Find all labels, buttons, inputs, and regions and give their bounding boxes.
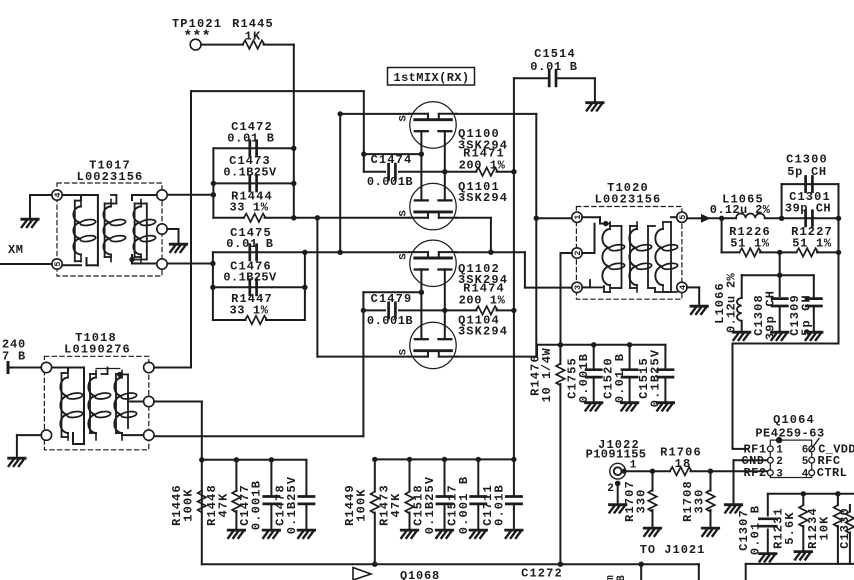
svg-text:200 1%: 200 1% xyxy=(459,294,506,308)
svg-text:330: 330 xyxy=(693,488,707,513)
svg-text:4: 4 xyxy=(802,468,809,480)
svg-text:Q1064: Q1064 xyxy=(773,413,815,427)
svg-text:2: 2 xyxy=(607,483,614,495)
svg-text:6: 6 xyxy=(802,445,809,457)
svg-text:5: 5 xyxy=(53,261,63,266)
svg-text:0.1B25V: 0.1B25V xyxy=(223,166,277,180)
svg-text:0.001B: 0.001B xyxy=(577,353,591,403)
svg-text:0.001B: 0.001B xyxy=(367,175,413,189)
svg-text:TO J1021: TO J1021 xyxy=(640,543,706,557)
svg-text:L0190276: L0190276 xyxy=(64,343,131,357)
svg-text:0.001B: 0.001B xyxy=(250,480,264,530)
svg-text:L0023156: L0023156 xyxy=(595,193,662,207)
svg-text:33 1%: 33 1% xyxy=(229,304,268,318)
svg-text:0.01B: 0.01B xyxy=(493,484,507,526)
svg-text:10 1/4W: 10 1/4W xyxy=(540,347,554,402)
svg-text:L0023156: L0023156 xyxy=(77,170,144,184)
svg-text:0.01 B: 0.01 B xyxy=(226,237,273,251)
svg-text:Q1068: Q1068 xyxy=(400,569,440,580)
svg-text:C1514: C1514 xyxy=(534,47,576,61)
svg-text:5p CH: 5p CH xyxy=(800,294,814,336)
svg-text:PE4259-63: PE4259-63 xyxy=(755,427,824,441)
svg-text:5p CH: 5p CH xyxy=(787,165,827,179)
svg-text:S: S xyxy=(397,349,409,355)
svg-text:C1330: C1330 xyxy=(838,507,852,549)
svg-text:0.1B25V: 0.1B25V xyxy=(223,271,277,285)
svg-text:0.001B: 0.001B xyxy=(367,314,413,328)
svg-text:C1479: C1479 xyxy=(371,292,413,306)
svg-text:1: 1 xyxy=(630,460,637,472)
svg-text:1K: 1K xyxy=(245,30,262,44)
svg-text:S: S xyxy=(397,115,409,121)
svg-text:47K: 47K xyxy=(217,492,231,517)
svg-text:S: S xyxy=(397,210,409,216)
svg-text:100K: 100K xyxy=(182,488,196,521)
svg-text:RF2: RF2 xyxy=(743,466,766,480)
svg-text:0.01 B: 0.01 B xyxy=(613,353,627,403)
svg-text:330: 330 xyxy=(635,488,649,513)
svg-text:0.001 B: 0.001 B xyxy=(457,476,471,534)
svg-text:***: *** xyxy=(183,29,211,46)
svg-text:39p CH: 39p CH xyxy=(764,290,778,340)
svg-text:0.1B25V: 0.1B25V xyxy=(649,349,663,407)
svg-text:S: S xyxy=(397,253,409,259)
svg-text:3SK294: 3SK294 xyxy=(458,191,508,205)
svg-text:0.12u 2%: 0.12u 2% xyxy=(725,272,739,333)
svg-text:1: 1 xyxy=(776,445,783,457)
svg-text:5: 5 xyxy=(802,456,809,468)
svg-text:0.1B25V: 0.1B25V xyxy=(285,476,299,534)
svg-text:7 B: 7 B xyxy=(2,350,26,364)
svg-text:47K: 47K xyxy=(389,492,403,517)
svg-text:3: 3 xyxy=(776,468,783,480)
svg-text:P1091155: P1091155 xyxy=(586,448,647,462)
svg-text:0.01 B: 0.01 B xyxy=(749,505,763,555)
svg-text:100K: 100K xyxy=(355,488,369,521)
svg-text:5.6K: 5.6K xyxy=(783,511,797,544)
svg-text:3SK294: 3SK294 xyxy=(458,325,508,339)
svg-text:C1474: C1474 xyxy=(371,153,413,167)
svg-text:2: 2 xyxy=(776,456,783,468)
svg-text:39p CH: 39p CH xyxy=(785,202,831,216)
svg-text:1stMIX(RX): 1stMIX(RX) xyxy=(393,71,469,85)
svg-text:0.01 B: 0.01 B xyxy=(530,60,577,74)
svg-text:0.12u 2%: 0.12u 2% xyxy=(710,203,771,217)
svg-text:0.1B25V: 0.1B25V xyxy=(423,476,437,534)
svg-text:0.01 B: 0.01 B xyxy=(227,132,274,146)
svg-text:C1272: C1272 xyxy=(521,567,563,580)
svg-text:XM: XM xyxy=(8,243,23,257)
svg-text:10K: 10K xyxy=(818,515,832,540)
svg-text:200 1%: 200 1% xyxy=(459,158,506,172)
svg-text:B: B xyxy=(616,574,628,580)
svg-text:CTRL: CTRL xyxy=(817,466,847,480)
svg-text:4: 4 xyxy=(53,192,63,197)
